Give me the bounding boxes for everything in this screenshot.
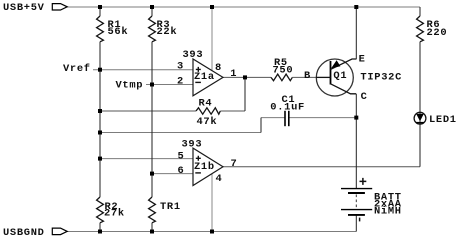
svg-text:NiMH: NiMH bbox=[374, 205, 402, 217]
svg-text:E: E bbox=[359, 53, 366, 65]
svg-text:1: 1 bbox=[230, 68, 237, 80]
svg-text:0.1uF: 0.1uF bbox=[270, 102, 305, 114]
svg-text:R4: R4 bbox=[199, 97, 213, 109]
svg-text:8: 8 bbox=[215, 62, 222, 74]
svg-text:56k: 56k bbox=[108, 26, 129, 38]
svg-text:6: 6 bbox=[178, 165, 185, 177]
svg-text:393: 393 bbox=[183, 49, 204, 61]
svg-text:750: 750 bbox=[273, 65, 294, 77]
svg-text:B: B bbox=[304, 70, 311, 82]
svg-text:Z1b: Z1b bbox=[194, 161, 215, 173]
svg-text:USB+5V: USB+5V bbox=[3, 2, 45, 14]
svg-text:Vref: Vref bbox=[63, 63, 91, 75]
svg-text:393: 393 bbox=[182, 138, 203, 150]
svg-text:4: 4 bbox=[216, 173, 223, 185]
svg-text:3: 3 bbox=[177, 61, 184, 73]
svg-text:Q1: Q1 bbox=[333, 70, 347, 82]
svg-text:27k: 27k bbox=[104, 208, 125, 220]
svg-text:C: C bbox=[361, 91, 368, 103]
svg-text:5: 5 bbox=[178, 150, 185, 162]
svg-text:2: 2 bbox=[177, 75, 184, 87]
svg-text:USBGND: USBGND bbox=[3, 227, 45, 239]
svg-text:TIP32C: TIP32C bbox=[360, 71, 402, 83]
svg-text:22k: 22k bbox=[157, 26, 178, 38]
svg-text:Vtmp: Vtmp bbox=[116, 79, 144, 91]
svg-text:220: 220 bbox=[427, 27, 448, 39]
svg-text:TR1: TR1 bbox=[160, 201, 181, 213]
svg-text:7: 7 bbox=[231, 158, 238, 170]
svg-text:47k: 47k bbox=[197, 116, 218, 128]
svg-text:Z1a: Z1a bbox=[194, 71, 215, 83]
svg-text:LED1: LED1 bbox=[429, 114, 457, 126]
